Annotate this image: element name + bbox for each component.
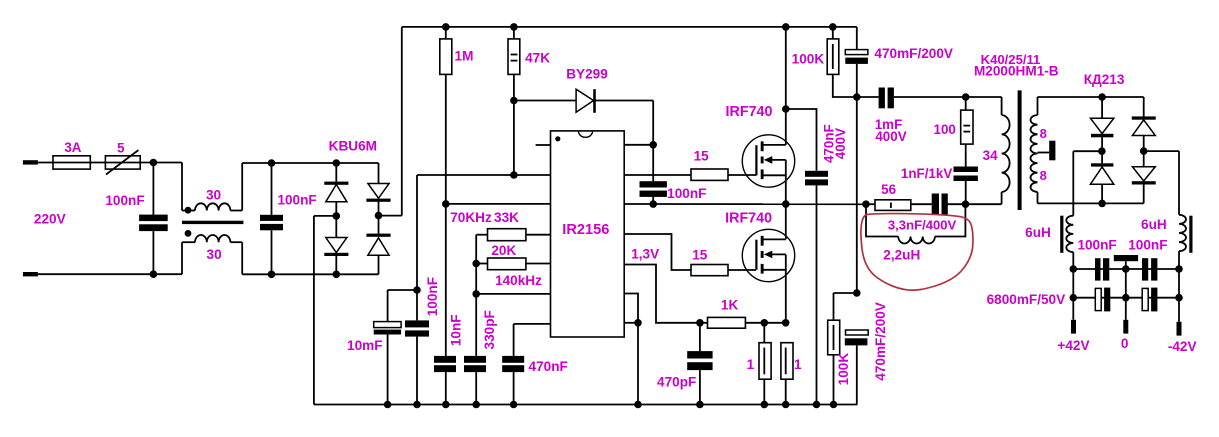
svg-text:КД213: КД213 bbox=[1084, 72, 1125, 87]
svg-text:1M: 1M bbox=[455, 49, 474, 64]
svg-text:3,3nF/400V: 3,3nF/400V bbox=[888, 218, 957, 233]
svg-text:56: 56 bbox=[881, 182, 896, 197]
svg-text:-42V: -42V bbox=[1168, 339, 1197, 354]
svg-text:100nF: 100nF bbox=[277, 193, 316, 208]
svg-text:100nF: 100nF bbox=[105, 193, 144, 208]
svg-text:10nF: 10nF bbox=[448, 314, 463, 346]
svg-text:100nF: 100nF bbox=[667, 186, 706, 201]
svg-text:KBU6M: KBU6M bbox=[329, 139, 377, 154]
svg-text:6uH: 6uH bbox=[1025, 225, 1051, 240]
svg-text:400V: 400V bbox=[833, 128, 848, 159]
svg-text:470pF: 470pF bbox=[657, 374, 696, 389]
svg-text:140kHz: 140kHz bbox=[495, 273, 542, 288]
svg-text:BY299: BY299 bbox=[566, 67, 608, 82]
svg-text:+42V: +42V bbox=[1057, 338, 1089, 353]
svg-text:30: 30 bbox=[206, 188, 221, 203]
svg-text:6uH: 6uH bbox=[1141, 217, 1167, 232]
svg-text:330pF: 330pF bbox=[482, 310, 497, 349]
svg-text:1nF/1kV: 1nF/1kV bbox=[901, 166, 952, 181]
svg-text:IRF740: IRF740 bbox=[726, 104, 773, 120]
svg-text:0: 0 bbox=[1121, 336, 1129, 351]
svg-text:1: 1 bbox=[747, 357, 755, 372]
svg-text:470mF/200V: 470mF/200V bbox=[874, 46, 953, 61]
svg-text:470nF: 470nF bbox=[529, 359, 568, 374]
svg-text:100K: 100K bbox=[792, 52, 825, 67]
svg-text:100K: 100K bbox=[836, 353, 851, 386]
svg-text:10mF: 10mF bbox=[347, 338, 383, 353]
svg-text:3A: 3A bbox=[64, 140, 81, 155]
svg-text:34: 34 bbox=[983, 148, 998, 163]
svg-text:100nF: 100nF bbox=[425, 277, 440, 316]
svg-text:15: 15 bbox=[692, 248, 708, 263]
svg-text:47K: 47K bbox=[525, 51, 550, 66]
svg-text:1,3V: 1,3V bbox=[631, 246, 659, 261]
svg-text:IRF740: IRF740 bbox=[725, 211, 772, 227]
svg-text:1: 1 bbox=[794, 357, 802, 372]
svg-text:220V: 220V bbox=[34, 212, 66, 227]
svg-text:30: 30 bbox=[207, 247, 222, 262]
svg-text:1K: 1K bbox=[721, 298, 739, 313]
svg-text:15: 15 bbox=[694, 148, 710, 163]
svg-text:470mF/200V: 470mF/200V bbox=[873, 302, 888, 381]
svg-text:2,2uH: 2,2uH bbox=[883, 248, 920, 263]
svg-text:6800mF/50V: 6800mF/50V bbox=[987, 292, 1066, 307]
svg-text:400V: 400V bbox=[875, 129, 906, 144]
svg-text:70KHz: 70KHz bbox=[450, 210, 492, 225]
svg-text:33K: 33K bbox=[494, 210, 519, 225]
svg-text:8: 8 bbox=[1040, 168, 1047, 183]
svg-text:20K: 20K bbox=[491, 243, 516, 258]
svg-text:8: 8 bbox=[1040, 126, 1047, 141]
svg-text:100: 100 bbox=[934, 122, 956, 137]
svg-text:M2000HM1-B: M2000HM1-B bbox=[974, 63, 1059, 78]
svg-text:IR2156: IR2156 bbox=[562, 222, 609, 238]
svg-text:5: 5 bbox=[117, 141, 125, 156]
svg-text:100nF: 100nF bbox=[1077, 238, 1116, 253]
svg-text:100nF: 100nF bbox=[1128, 238, 1167, 253]
